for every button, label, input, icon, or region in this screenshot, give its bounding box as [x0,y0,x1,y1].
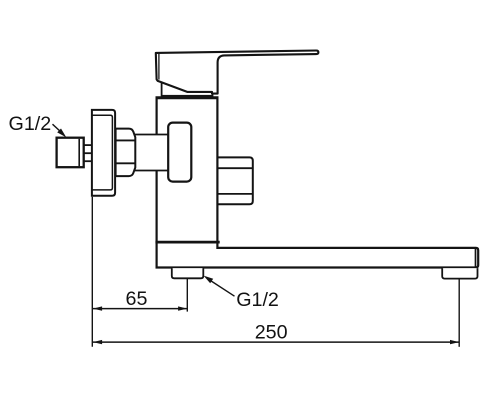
nut facet line upper [116,139,136,141]
dim 65 left arrow [93,306,102,310]
body bottom thick line [155,241,219,244]
cartridge collar under handle [162,80,213,96]
extension line left foot [186,279,188,312]
body top thick line [156,96,219,99]
nut facet line lower [116,162,136,164]
dimension line 250 [93,341,459,343]
dim 250 left arrow [93,340,102,344]
mounting flange on body [168,123,191,182]
svg-text:65: 65 [126,288,148,310]
right mounting foot [442,268,477,279]
dimension line 65 [93,308,187,310]
extension line right foot [458,279,460,347]
hex nut [116,129,136,177]
spout outlet block (right side of body) [218,157,253,204]
svg-text:250: 250 [255,322,288,344]
left mounting foot [172,268,204,278]
leader arrow bottom [204,276,214,284]
G1/2 inlet connector [57,138,84,168]
threaded nipple lines [84,145,93,161]
handle with lever [156,51,319,94]
supply pipe [134,135,171,171]
leader line bottom G1/2 [207,279,234,297]
faucet body + spout outline [157,98,479,268]
spout end inner line [475,249,477,268]
leader arrow top [57,129,66,138]
svg-text:G1/2: G1/2 [236,289,279,311]
escutcheon inner lip [92,115,113,190]
connector inner line [78,139,80,166]
dim 250 right arrow [450,340,459,344]
handle inner edge line [158,53,160,79]
dim 65 right arrow [178,306,187,310]
svg-text:G1/2: G1/2 [9,113,52,135]
escutcheon plate [92,110,115,196]
leader line top G1/2 [53,124,63,134]
extension line wall plane [91,197,93,347]
